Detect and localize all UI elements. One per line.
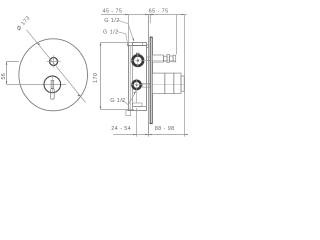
upper cartridge ring — [133, 55, 144, 66]
lower handle cap — [174, 73, 181, 94]
svg-text:Ø 173: Ø 173 — [16, 15, 32, 32]
lower handle mid — [165, 73, 174, 94]
svg-text:170: 170 — [93, 73, 99, 83]
lower handle base — [152, 73, 165, 94]
wall plate (side view) — [150, 37, 152, 124]
diameter dim diagonal line — [27, 30, 86, 103]
leader top — [118, 20, 134, 41]
bottom dim line — [113, 134, 187, 136]
svg-text:G 1/2: G 1/2 — [103, 30, 118, 36]
diagonal arrow lower — [78, 94, 81, 96]
diverter knob (front view small circle) — [50, 58, 58, 66]
main knob slot — [51, 80, 54, 88]
arrow up — [6, 62, 8, 65]
ext line upper handle tip — [176, 15, 178, 55]
ext bottom outlet — [101, 109, 134, 111]
arrow right to box back — [125, 14, 128, 16]
main knob cross v — [52, 75, 54, 94]
upper handle mid — [164, 56, 168, 61]
lower spindle to plate — [142, 84, 150, 88]
arrow to outlet ext — [133, 134, 136, 136]
trim plate (front view) — [19, 39, 88, 111]
main knob lever — [51, 89, 55, 99]
arrow right at lower handle tip ext — [181, 14, 184, 16]
svg-text:G 1/2: G 1/2 — [104, 18, 119, 24]
svg-text:45 - 75: 45 - 75 — [103, 8, 123, 14]
arrow up — [100, 43, 102, 46]
svg-text:24 - 54: 24 - 54 — [111, 126, 131, 132]
arrows at wall line — [149, 14, 152, 16]
arrow down — [100, 106, 102, 109]
lower cartridge ring — [132, 81, 140, 89]
bridge to wall — [147, 45, 149, 48]
svg-text:65 - 75: 65 - 75 — [149, 8, 169, 14]
internal pipe below lower cartridge — [136, 92, 138, 104]
upper handle collar — [167, 55, 169, 63]
top outlet stub — [133, 43, 147, 46]
top dimension line — [101, 14, 187, 16]
arrow left at plate front — [150, 14, 153, 16]
wall line — [148, 15, 150, 137]
diverter knob centerline (horizontal ext to dim) — [7, 61, 19, 63]
vertical dimension 56 line — [6, 62, 8, 85]
diverter cross v — [53, 55, 55, 67]
main knob outer ring — [44, 76, 61, 93]
stub inner line — [142, 43, 144, 46]
upper handle tip — [173, 55, 176, 62]
diverter cross h — [47, 61, 61, 63]
ext line lower handle tip (full) — [184, 15, 186, 137]
arrow down — [6, 81, 8, 84]
arrows at wall line bottom — [149, 134, 152, 136]
box inner line — [132, 46, 134, 111]
vertical dim 170 line — [100, 43, 102, 110]
bottom outlet fitting — [133, 103, 143, 107]
ext line box back — [128, 15, 130, 46]
recessed box body — [129, 46, 147, 111]
box internal bottom line — [133, 106, 147, 108]
leader second — [117, 32, 128, 47]
upper handle base — [152, 55, 163, 62]
svg-text:88 - 98: 88 - 98 — [155, 126, 175, 132]
leader bottom — [122, 91, 137, 105]
arrow at handle tip bottom — [185, 134, 188, 136]
ext line outlet — [136, 108, 138, 137]
upper spindle to plate — [147, 57, 153, 60]
main knob centerline horizontal — [7, 84, 67, 86]
ext top outlet — [101, 42, 133, 44]
svg-text:56: 56 — [1, 73, 7, 80]
upper handle neck — [169, 56, 173, 61]
lower handle tip — [181, 76, 184, 91]
box inner wall line — [129, 46, 131, 111]
diagonal arrow upper — [37, 43, 40, 45]
bottom-left bracket — [126, 111, 131, 116]
